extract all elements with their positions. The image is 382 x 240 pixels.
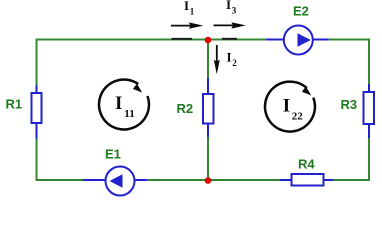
svg-text:I: I: [283, 96, 290, 117]
current arrow I2: [214, 45, 238, 74]
svg-text:22: 22: [292, 111, 304, 123]
resistor R2: [203, 94, 214, 124]
svg-text:R1: R1: [6, 97, 23, 112]
wire bottom-left horizontal: [37, 179, 84, 181]
wire top-right horizontal: [329, 39, 371, 41]
svg-text:I: I: [115, 93, 122, 114]
node bottom (red): [205, 177, 212, 184]
node top (red): [205, 37, 212, 44]
wire right vertical lower: [368, 138, 370, 181]
resistor R3: [364, 92, 375, 124]
svg-text:2: 2: [232, 58, 237, 68]
wire R1 top lead: [36, 85, 38, 94]
wire E1 left lead: [83, 179, 106, 181]
mesh loop I22: [265, 82, 315, 132]
wire left vertical lower: [36, 139, 38, 181]
svg-text:11: 11: [124, 108, 134, 120]
svg-text:R3: R3: [341, 97, 358, 112]
wire R2 top lead: [207, 78, 209, 95]
wire R2 bottom lead: [207, 123, 209, 137]
svg-text:E1: E1: [105, 146, 121, 161]
wire R4 right lead: [323, 179, 333, 181]
svg-text:I: I: [226, 0, 231, 12]
wire E2 left lead: [266, 39, 284, 41]
mesh loop I11: [99, 79, 149, 129]
wire R3 top lead: [368, 84, 370, 93]
wire dark mark right of node: [222, 38, 237, 40]
wire dark mark left of node: [172, 38, 193, 40]
wire left vertical: [36, 39, 38, 86]
svg-text:I: I: [227, 50, 232, 65]
wire E2 right lead: [313, 39, 329, 41]
wire bottom-right horizontal: [333, 179, 370, 181]
current arrow I1: [171, 0, 203, 29]
source E2: [284, 26, 313, 55]
svg-text:R2: R2: [177, 101, 194, 116]
svg-text:I: I: [184, 0, 189, 13]
svg-text:R4: R4: [298, 157, 315, 172]
wire right vertical: [368, 39, 370, 85]
wire middle vertical lower: [207, 137, 209, 181]
current arrow I3: [214, 0, 246, 29]
wire R3 bottom lead: [368, 124, 370, 138]
wire E1 right lead: [134, 179, 147, 181]
resistor R1: [32, 93, 42, 123]
svg-text:1: 1: [190, 7, 195, 17]
wire bottom-middle horizontal: [147, 179, 280, 181]
wire middle vertical upper: [207, 40, 209, 78]
svg-text:E2: E2: [293, 4, 309, 19]
svg-text:3: 3: [232, 6, 237, 16]
wire R1 bottom lead: [36, 123, 38, 140]
resistor R4: [292, 174, 324, 186]
wire top-left horizontal: [37, 39, 267, 41]
source E1: [106, 167, 135, 196]
wire R4 left lead: [280, 179, 292, 181]
